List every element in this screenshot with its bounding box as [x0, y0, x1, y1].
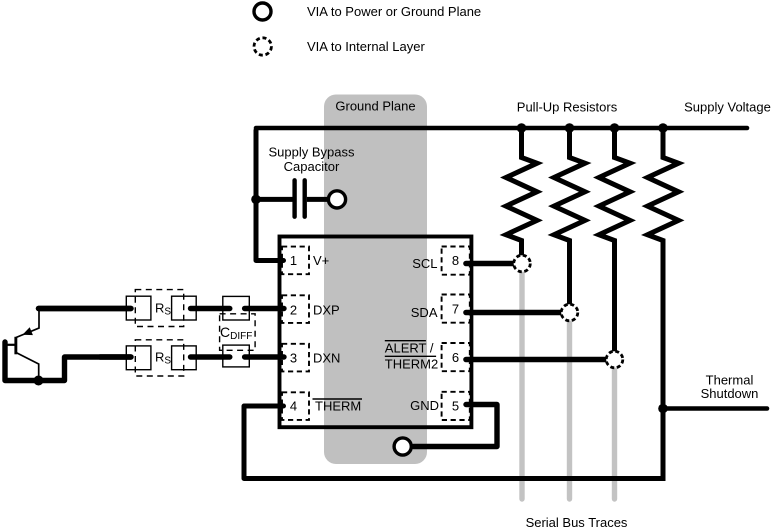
- wire RS1 left entry (redrawn over pad): [39, 306, 132, 311]
- svg-text:RS: RS: [155, 301, 171, 318]
- wire GND pin 5 to ground via: [414, 405, 498, 447]
- pin 7 pad box: [442, 295, 470, 323]
- svg-text:Pull-Up Resistors: Pull-Up Resistors: [517, 100, 618, 115]
- wire thermal shutdown: [663, 406, 767, 411]
- legend via to internal layer symbol: [254, 38, 271, 55]
- pin 4 pad box: [282, 392, 309, 420]
- wire junction to bypass capacitor: [256, 197, 293, 202]
- transistor Q1 emitter line with arrow: [16, 309, 39, 338]
- transistor Q1 base/collector wire DXN: [5, 342, 131, 381]
- resistor RS2 left pad: [126, 346, 151, 370]
- wire supply drop to pin 1 V+: [256, 130, 284, 260]
- svg-text:CDIFF: CDIFF: [220, 324, 252, 342]
- svg-text:5: 5: [452, 399, 459, 414]
- capacitor C1 supply bypass plate 2: [303, 180, 307, 216]
- svg-text:VIA to Power or Ground Plane: VIA to Power or Ground Plane: [307, 4, 481, 19]
- capacitor CDIFF bottom pad: [223, 345, 250, 367]
- wire RS2 to CDIFF bottom pad: [191, 354, 230, 359]
- IC U1 outline: [280, 237, 472, 428]
- via to internal layer (ALERT): [606, 351, 623, 368]
- svg-text:SDA: SDA: [411, 305, 438, 320]
- capacitor CDIFF top pad: [223, 296, 250, 320]
- resistor R2 pull-up: [554, 128, 585, 305]
- resistor RS1 dashed outline: [135, 290, 183, 327]
- resistor R4 pull-up: [648, 128, 679, 481]
- wire THERM pin 4 loop to bottom: [244, 406, 663, 479]
- node junction rail/R4: [658, 123, 668, 133]
- svg-text:2: 2: [290, 303, 297, 318]
- wire SCL pin 8 to via: [466, 261, 513, 267]
- resistor R3 pull-up: [599, 128, 630, 352]
- resistor RS1 right pad: [172, 296, 197, 320]
- svg-text:Supply Voltage: Supply Voltage: [684, 100, 771, 115]
- node junction rail/R1: [517, 123, 527, 133]
- node junction collector/DXN: [34, 376, 44, 386]
- svg-text:Capacitor: Capacitor: [284, 159, 340, 174]
- legend via to power/ground plane symbol: [254, 3, 271, 20]
- resistor RS1 left pad: [126, 296, 151, 320]
- ground plane region: [324, 95, 427, 465]
- resistor R1 pull-up: [506, 128, 537, 256]
- pin 2 pad box: [282, 295, 309, 323]
- svg-text:Supply Bypass: Supply Bypass: [269, 145, 355, 160]
- node junction rail/R3: [610, 123, 620, 133]
- wire ALERT pin 6 to via: [466, 357, 606, 363]
- wire RS2 left entry (redrawn over pad): [100, 354, 131, 359]
- svg-text:THERM: THERM: [315, 399, 361, 414]
- pin 6 pad box: [442, 343, 470, 371]
- wire supply voltage rail: [256, 126, 747, 131]
- svg-text:RS: RS: [155, 350, 171, 367]
- capacitor CDIFF dashed outline: [220, 314, 256, 351]
- transistor Q1 collector line: [16, 353, 39, 381]
- svg-text:6: 6: [452, 350, 459, 365]
- transistor Q1 emitter wire DXP: [39, 306, 132, 311]
- svg-text:Serial Bus Traces: Serial Bus Traces: [526, 515, 628, 530]
- node junction supply/bypass: [251, 195, 261, 205]
- serial bus trace 2 (gray): [567, 313, 572, 500]
- pin 3 pad box: [282, 344, 309, 372]
- pin 1 pad box: [282, 247, 309, 275]
- pin 5 pad box: [442, 392, 470, 420]
- svg-text:DXP: DXP: [313, 303, 340, 318]
- svg-text:GND: GND: [410, 398, 439, 413]
- serial bus trace 1 (gray): [519, 264, 524, 500]
- svg-text:Shutdown: Shutdown: [701, 386, 759, 401]
- via to internal layer (SDA): [561, 304, 578, 321]
- via to ground plane (GND pin): [394, 438, 411, 455]
- pin 8 pad box: [442, 247, 470, 275]
- resistor RS2 dashed outline: [135, 340, 183, 376]
- svg-text:7: 7: [452, 302, 459, 317]
- svg-text:4: 4: [290, 399, 297, 414]
- svg-text:8: 8: [452, 253, 459, 268]
- svg-text:DXN: DXN: [313, 351, 340, 366]
- svg-text:ALERT /: ALERT /: [385, 340, 434, 355]
- wire CDIFF to pin 2 DXP: [245, 306, 284, 311]
- wire capacitor to ground via: [307, 197, 330, 202]
- svg-text:VIA to Internal Layer: VIA to Internal Layer: [307, 39, 425, 54]
- node junction thermal shutdown: [658, 404, 668, 414]
- serial bus trace 3 (gray): [612, 360, 617, 500]
- resistor RS2 right pad: [172, 346, 197, 370]
- svg-text:THERM2: THERM2: [385, 357, 438, 372]
- transistor Q1 base connector: [5, 344, 15, 346]
- svg-text:1: 1: [290, 253, 297, 268]
- via to internal layer (SCL): [514, 255, 531, 272]
- wire RS1 to CDIFF top pad: [191, 306, 230, 311]
- via to ground plane (bypass cap): [328, 191, 345, 208]
- transistor Q1 base bar: [14, 337, 17, 355]
- wire SDA pin 7 to via: [466, 310, 561, 316]
- svg-text:SCL: SCL: [412, 256, 437, 271]
- wire CDIFF to pin 3 DXN: [245, 354, 284, 359]
- node junction rail/R2: [565, 123, 575, 133]
- svg-text:Ground Plane: Ground Plane: [335, 99, 415, 114]
- svg-text:V+: V+: [313, 253, 329, 268]
- svg-text:3: 3: [290, 351, 297, 366]
- capacitor C1 supply bypass plate 1: [292, 180, 296, 216]
